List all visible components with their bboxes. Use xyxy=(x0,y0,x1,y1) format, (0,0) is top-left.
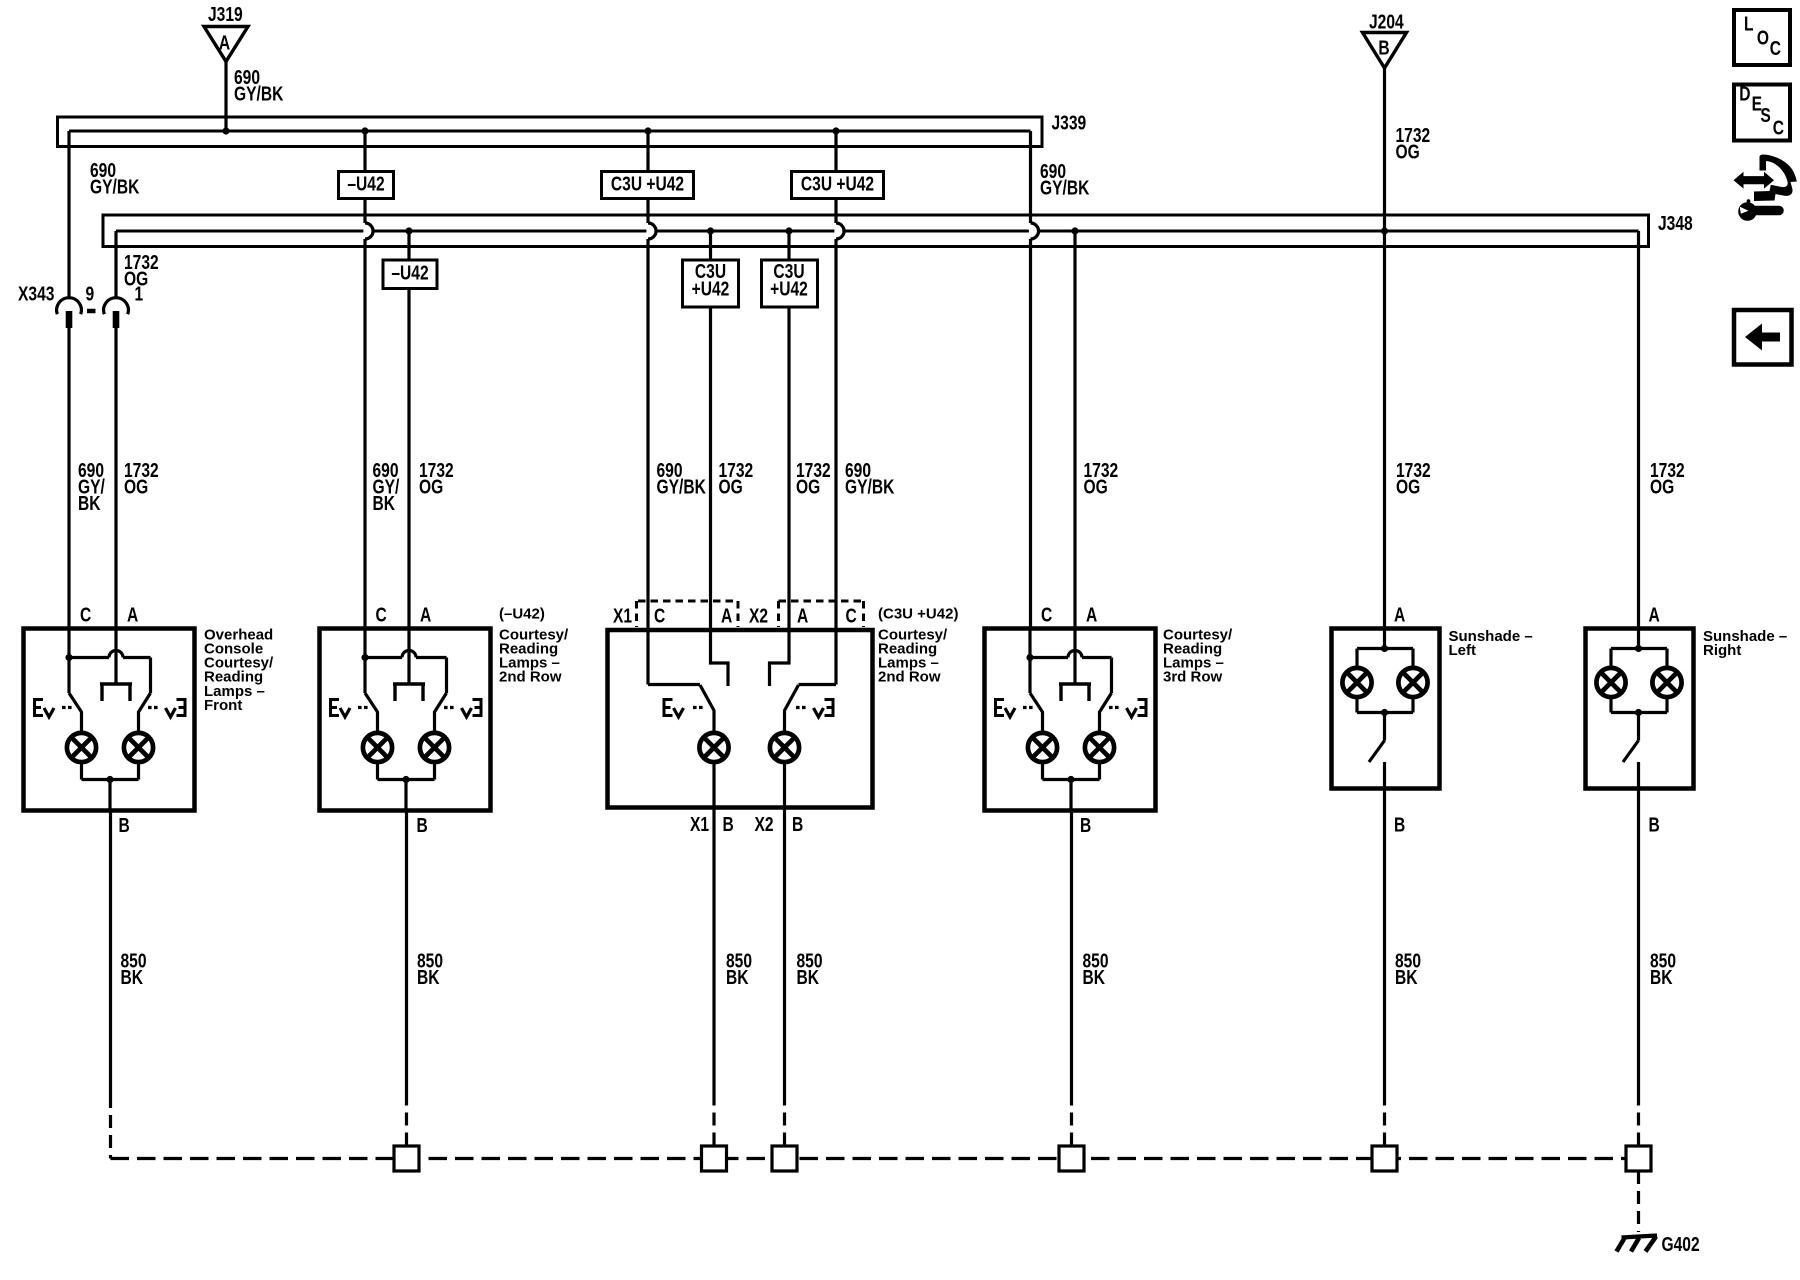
svg-text:C: C xyxy=(1041,604,1052,626)
svg-text:OG: OG xyxy=(419,476,443,498)
svg-text:B: B xyxy=(792,813,803,835)
svg-text:BK: BK xyxy=(78,492,101,514)
svg-text:A: A xyxy=(127,604,138,626)
svg-text:X343: X343 xyxy=(18,283,54,305)
svg-text:A: A xyxy=(721,605,732,627)
svg-text:C3U +U42: C3U +U42 xyxy=(611,173,684,195)
svg-text:X1: X1 xyxy=(690,813,709,835)
svg-text:BK: BK xyxy=(417,966,440,988)
svg-text:C: C xyxy=(80,604,91,626)
svg-text:A: A xyxy=(1086,604,1097,626)
svg-text:A: A xyxy=(219,32,230,54)
svg-text:J339: J339 xyxy=(1052,112,1087,134)
svg-text:B: B xyxy=(417,814,428,836)
svg-text:C: C xyxy=(1773,117,1784,139)
svg-text:A: A xyxy=(797,605,808,627)
svg-text:C: C xyxy=(376,604,387,626)
svg-text:BK: BK xyxy=(121,966,144,988)
svg-text:X2: X2 xyxy=(749,605,768,627)
svg-text:Left: Left xyxy=(1449,642,1477,659)
svg-text:GY/BK: GY/BK xyxy=(845,476,894,498)
svg-text:B: B xyxy=(1394,814,1405,836)
svg-text:G402: G402 xyxy=(1662,1233,1700,1255)
svg-text:OG: OG xyxy=(124,476,148,498)
svg-text:2nd Row: 2nd Row xyxy=(878,669,941,686)
svg-text:BK: BK xyxy=(1650,966,1673,988)
svg-text:A: A xyxy=(420,604,431,626)
svg-text:BK: BK xyxy=(1083,966,1106,988)
svg-text:B: B xyxy=(1378,37,1389,59)
svg-text:BK: BK xyxy=(373,492,396,514)
svg-text:OG: OG xyxy=(1084,476,1108,498)
svg-text:X2: X2 xyxy=(755,813,774,835)
svg-text:OG: OG xyxy=(719,476,743,498)
svg-text:OG: OG xyxy=(796,476,820,498)
svg-text:J319: J319 xyxy=(208,3,243,25)
svg-text:+U42: +U42 xyxy=(770,278,808,300)
svg-text:OG: OG xyxy=(1396,476,1420,498)
svg-text:3rd Row: 3rd Row xyxy=(1163,669,1223,686)
svg-text:B: B xyxy=(723,813,734,835)
svg-text:(C3U +U42): (C3U +U42) xyxy=(878,606,958,623)
svg-text:C: C xyxy=(1770,37,1781,59)
svg-text:BK: BK xyxy=(1395,966,1418,988)
svg-text:+U42: +U42 xyxy=(692,278,730,300)
svg-text:–U42: –U42 xyxy=(391,262,428,284)
svg-text:2nd Row: 2nd Row xyxy=(499,669,562,686)
svg-text:BK: BK xyxy=(726,966,749,988)
svg-text:J348: J348 xyxy=(1658,212,1693,234)
svg-text:GY/BK: GY/BK xyxy=(657,476,706,498)
svg-text:OG: OG xyxy=(1396,141,1420,163)
svg-text:J204: J204 xyxy=(1369,11,1404,33)
svg-text:A: A xyxy=(1394,604,1405,626)
svg-text:GY/BK: GY/BK xyxy=(234,82,283,104)
svg-text:D: D xyxy=(1739,83,1750,105)
svg-text:B: B xyxy=(1080,814,1091,836)
svg-text:1: 1 xyxy=(135,283,144,305)
svg-text:C3U +U42: C3U +U42 xyxy=(801,173,874,195)
svg-text:9: 9 xyxy=(86,283,95,305)
svg-text:B: B xyxy=(119,814,130,836)
svg-text:C: C xyxy=(654,605,665,627)
svg-text:GY/BK: GY/BK xyxy=(90,175,139,197)
svg-text:B: B xyxy=(1649,814,1660,836)
svg-text:L: L xyxy=(1744,13,1754,35)
svg-text:O: O xyxy=(1757,27,1769,49)
svg-text:GY/BK: GY/BK xyxy=(1040,176,1089,198)
svg-text:–U42: –U42 xyxy=(347,173,384,195)
svg-text:A: A xyxy=(1649,604,1660,626)
svg-text:OG: OG xyxy=(1650,476,1674,498)
svg-text:C: C xyxy=(846,605,857,627)
svg-text:Right: Right xyxy=(1703,642,1741,659)
svg-text:S: S xyxy=(1760,104,1770,126)
svg-text:Front: Front xyxy=(204,697,242,714)
svg-text:(–U42): (–U42) xyxy=(499,606,545,623)
svg-text:BK: BK xyxy=(797,966,820,988)
svg-text:X1: X1 xyxy=(613,605,632,627)
